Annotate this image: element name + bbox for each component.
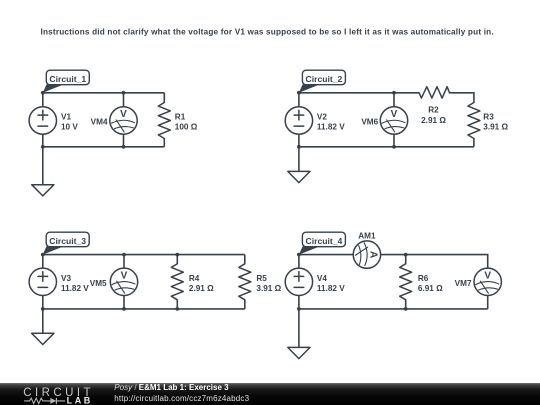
svg-text:2.91 Ω: 2.91 Ω — [421, 116, 446, 125]
label callout Circuit_2 — [302, 70, 345, 85]
ammeter AM1 — [353, 241, 380, 268]
resistor R1 — [158, 103, 170, 139]
wire C2 top right + R3 stubs — [450, 93, 474, 147]
wire C2 bottom rail — [299, 146, 474, 148]
svg-text:VM7: VM7 — [455, 279, 472, 288]
voltage source V2 — [285, 107, 312, 134]
node C4 bottom-left — [297, 307, 301, 311]
svg-text:10 V: 10 V — [61, 122, 78, 131]
wire VM7 bottom stub — [487, 296, 489, 309]
svg-text:Circuit_2: Circuit_2 — [306, 74, 343, 84]
ground C2 stem — [298, 147, 300, 172]
svg-text:R4: R4 — [189, 274, 200, 283]
label callout Circuit_2 tail — [299, 84, 320, 92]
svg-text:V1: V1 — [61, 112, 71, 121]
resistor R2 — [419, 87, 449, 98]
label callout Circuit_3 — [46, 232, 89, 247]
svg-text:R6: R6 — [418, 274, 429, 283]
wire C2 top rail — [299, 92, 419, 94]
node C3 top-left — [41, 253, 45, 257]
wire C3 top rail — [43, 254, 245, 256]
voltmeter VM4 — [110, 107, 137, 134]
svg-text:R5: R5 — [256, 274, 267, 283]
svg-text:Instructions did not clarify w: Instructions did not clarify what the vo… — [41, 28, 494, 37]
svg-text:Circuit_4: Circuit_4 — [306, 236, 343, 246]
svg-text:http://circuitlab.com/ccz7m6z4: http://circuitlab.com/ccz7m6z4abdc3 — [114, 394, 249, 403]
node C3 VM5 bottom — [122, 307, 126, 311]
resistor R5 — [239, 264, 251, 300]
wire V2 stubs — [298, 93, 300, 147]
voltmeter VM6 — [380, 107, 407, 134]
wire R5 stubs — [244, 255, 246, 309]
wire C3 bottom rail — [43, 308, 245, 310]
label callout Circuit_1 tail — [43, 84, 64, 92]
svg-text:3.91 Ω: 3.91 Ω — [483, 122, 508, 131]
wire V1 stubs — [42, 93, 44, 147]
svg-text:V2: V2 — [317, 112, 327, 121]
wire V3 stubs — [42, 255, 44, 309]
svg-text:R2: R2 — [428, 105, 439, 114]
wire R6 stubs — [405, 255, 407, 309]
wire R1 stubs — [163, 93, 165, 147]
svg-text:6.91 Ω: 6.91 Ω — [418, 284, 443, 293]
node C2 VM6 top — [392, 91, 396, 95]
wire V4 stubs — [298, 255, 300, 309]
svg-text:VM4: VM4 — [91, 117, 108, 126]
voltage source V3 — [29, 268, 56, 295]
wire C4 top rail left — [299, 254, 353, 256]
ground C2 — [288, 171, 310, 182]
node C2 VM6 bottom — [392, 145, 396, 149]
node C4 R6 bottom — [404, 307, 408, 311]
ground C4 stem — [298, 309, 300, 348]
svg-text:V3: V3 — [61, 274, 71, 283]
wire C1 bottom rail — [43, 146, 165, 148]
label callout Circuit_4 — [302, 232, 345, 247]
svg-text:11.82 V: 11.82 V — [61, 284, 89, 293]
wire C4 top rail right — [381, 255, 488, 269]
svg-text:VM5: VM5 — [90, 279, 107, 288]
ground C3 — [32, 333, 54, 344]
node C4 R6 top — [404, 253, 408, 257]
svg-text:Posy / E&M1 Lab 1: Exercise 3: Posy / E&M1 Lab 1: Exercise 3 — [114, 383, 229, 392]
svg-text:R1: R1 — [175, 112, 186, 121]
voltmeter VM5 — [110, 268, 137, 295]
voltage source V1 — [29, 107, 56, 134]
ground C1 stem — [42, 147, 44, 185]
svg-text:V: V — [484, 270, 491, 281]
resistor R6 — [400, 264, 412, 300]
node C3 VM5 top — [122, 253, 126, 257]
svg-text:11.82 V: 11.82 V — [317, 284, 345, 293]
wire C4 bottom rail — [299, 308, 488, 310]
ground C4 — [288, 347, 310, 358]
node C3 R4 top — [175, 253, 179, 257]
voltmeter VM7 — [474, 268, 501, 295]
node C1 bottom-left — [41, 145, 45, 149]
node C4 top-left — [297, 253, 301, 257]
svg-text:A: A — [367, 251, 378, 258]
wire VM5 stubs — [123, 255, 125, 309]
svg-text:V4: V4 — [317, 274, 327, 283]
svg-text:2.91 Ω: 2.91 Ω — [189, 284, 214, 293]
ground C3 stem — [42, 309, 44, 333]
svg-text:LAB: LAB — [67, 395, 93, 405]
node C2 bottom-left — [297, 145, 301, 149]
svg-text:3.91 Ω: 3.91 Ω — [256, 284, 281, 293]
wire R4 stubs — [176, 255, 178, 309]
svg-text:Circuit_1: Circuit_1 — [49, 74, 86, 84]
label callout Circuit_1 — [46, 70, 89, 85]
ground C1 — [32, 185, 54, 196]
svg-text:100 Ω: 100 Ω — [175, 122, 198, 131]
label callout Circuit_3 tail — [43, 246, 64, 254]
label callout Circuit_4 tail — [299, 246, 320, 254]
logo squiggle wire — [24, 398, 65, 403]
svg-text:R3: R3 — [483, 112, 494, 121]
wire VM6 stubs — [393, 93, 395, 147]
node C2 top-left — [297, 91, 301, 95]
logo diode — [50, 398, 56, 404]
node C1 VM4 bottom — [122, 145, 126, 149]
svg-text:V: V — [391, 109, 398, 120]
svg-text:Circuit_3: Circuit_3 — [49, 236, 86, 246]
voltage source V4 — [285, 268, 312, 295]
wire VM4 stubs — [123, 93, 125, 147]
node C1 VM4 top — [122, 91, 126, 95]
svg-text:AM1: AM1 — [358, 232, 376, 241]
resistor R3 — [468, 103, 480, 139]
svg-text:VM6: VM6 — [361, 117, 378, 126]
svg-text:11.82 V: 11.82 V — [317, 122, 345, 131]
node C1 top-left — [41, 91, 45, 95]
svg-text:V: V — [120, 109, 127, 120]
wire C1 top rail — [43, 92, 165, 94]
svg-text:V: V — [121, 270, 128, 281]
node C3 bottom-left — [41, 307, 45, 311]
node C3 R4 bottom — [175, 307, 179, 311]
resistor R4 — [171, 264, 183, 300]
